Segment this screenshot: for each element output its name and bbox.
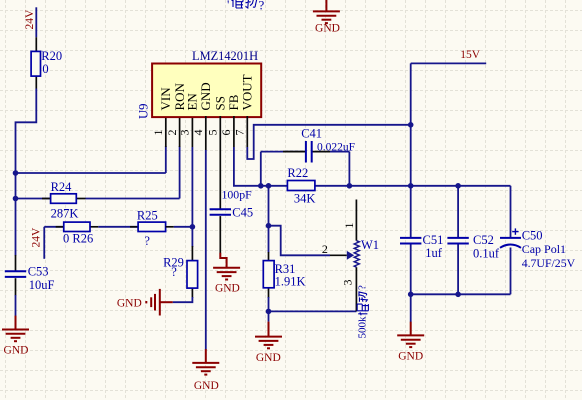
wire R25 to pin3 [166,226,174,228]
svg-text:5: 5 [206,130,220,136]
ground GND (bottom center) [205,349,207,363]
value CJK (W1 rotated 滑动?) [357,304,368,315]
svg-text:GND: GND [4,345,29,357]
svg-text:VIN: VIN [158,87,173,111]
capacitor C45 [210,208,231,210]
svg-text:VOUT: VOUT [240,74,255,110]
capacitor C51 [400,237,421,239]
svg-text:0: 0 [42,62,48,76]
pin stub 6 [233,116,235,147]
svg-text:GND: GND [198,82,213,110]
svg-text:R20: R20 [41,49,62,63]
wire wiper to W1 [269,226,331,256]
svg-text:GND: GND [256,352,281,364]
resistor R26 [64,222,90,231]
pin stub 2 [179,116,181,147]
svg-text:GND: GND [117,297,142,309]
resistor R20 [31,51,40,76]
svg-text:LMZ14201H: LMZ14201H [192,49,258,63]
node junction left rail / pin1 wire [13,170,19,176]
svg-text:4: 4 [191,130,205,136]
capacitor C53 [5,270,26,272]
wire R20 to left rail [16,89,37,256]
resistor R29 pins [191,246,193,261]
svg-text:500k: 500k [356,316,368,339]
node junction pin3/R25 [190,224,196,230]
ground GND (below R31) [268,311,270,321]
resistor R20 pins [35,37,37,51]
svg-text:R24: R24 [51,180,73,194]
svg-text:0.1uf: 0.1uf [473,247,500,261]
svg-text:C51: C51 [423,233,444,247]
wire GND below C51 [410,294,412,322]
C45 lower lead [219,216,221,253]
bottom rail caps [411,293,511,295]
svg-text:?: ? [144,234,150,248]
power port 24V (at R26) [43,227,45,259]
capacitor C41 branch [260,152,262,186]
svg-text:100pF: 100pF [222,187,253,201]
wire FB rail [234,147,288,186]
svg-text:34K: 34K [294,191,316,205]
resistor R25 [138,222,166,231]
power port GND (top) [325,0,327,11]
resistor R31 pins [268,252,270,261]
svg-text:C41: C41 [301,127,322,141]
resistor R31 [263,261,274,288]
wire R29 to GND port [173,297,193,302]
node junction R31/wiper [266,223,272,229]
node junction C51 top [408,183,414,189]
svg-text:15V: 15V [460,49,481,61]
svg-text:1uf: 1uf [425,246,443,260]
capacitor C50 (polarized) [500,237,521,239]
svg-text:24V: 24V [31,227,43,248]
svg-text:3: 3 [341,280,355,286]
node junction C51 bottom [408,292,414,298]
ground GND (below C53) [15,316,17,330]
capacitor C53 pins [15,255,17,271]
svg-text:10uF: 10uF [29,278,55,292]
node junction C52 bottom [455,292,461,298]
ground GND (below caps) [410,322,412,336]
W1 wiper arrow [347,251,354,260]
node junction R31 bottom [266,309,272,315]
svg-text:': ' [227,0,229,12]
svg-text:6: 6 [219,130,233,136]
svg-text:C53: C53 [28,264,49,278]
node junction left rail / R24 [13,196,19,202]
wire pin4 GND net [205,150,207,350]
wire pin3 down [191,147,193,227]
svg-text:4.7UF/25V: 4.7UF/25V [522,256,576,270]
svg-text:0.022uF: 0.022uF [317,142,355,154]
svg-text:1.91K: 1.91K [275,275,306,289]
pin stub 5 / C45 lead [219,116,221,210]
svg-text:287K: 287K [51,206,79,220]
resistor R24 pins [16,198,51,200]
svg-text:C52: C52 [473,233,494,247]
svg-text:W1: W1 [361,238,379,252]
svg-text:1: 1 [342,223,356,229]
capacitor C52 branch [457,186,459,238]
potentiometer W1 zigzag [354,241,359,268]
wire R26-R25 [98,226,138,228]
svg-text:2: 2 [322,242,328,256]
svg-text:?: ? [356,285,368,290]
svg-text:R25: R25 [137,208,158,222]
svg-text:C45: C45 [232,206,253,220]
ground GND (below C45) [220,253,226,268]
wire C53 to GND [15,295,17,316]
svg-text:C50: C50 [522,229,543,243]
resistor R29 [187,261,198,289]
node junction R31 top [266,183,272,189]
node junction C41 left [258,183,264,189]
svg-text:?: ? [171,265,177,279]
power 15V rail [410,63,412,185]
wire R24 to pin2 [86,198,180,200]
svg-text:U9: U9 [137,103,151,119]
power port 24V (top-left) [35,7,37,37]
svg-text:Cap Pol1: Cap Pol1 [522,242,566,256]
node junction VOUT/15V [408,122,414,128]
svg-text:GND: GND [215,283,240,295]
top rail corner down [510,186,512,238]
pin stub 1 [165,116,167,147]
svg-text:?: ? [259,0,265,13]
power port GND (sideways, at R29) [160,301,173,303]
capacitor C52 [447,237,468,239]
pin stub 7 [246,116,248,147]
svg-text:24V: 24V [24,9,36,30]
pin stub 4 [205,116,207,150]
svg-text:R22: R22 [287,166,308,180]
resistor R22 [287,181,315,191]
capacitor C51 branch [410,186,412,238]
plus sign C50 [512,231,518,233]
svg-text:GND: GND [194,380,219,392]
resistor R26 pins [44,226,64,228]
svg-text:GND: GND [315,23,340,35]
svg-text:0 R26: 0 R26 [63,232,93,246]
resistor R24 [51,194,77,204]
potentiometer W1 pins [355,200,357,241]
svg-text:3: 3 [178,130,192,136]
op-amp U9 LMZ14201H [152,64,261,118]
capacitor C41 [305,141,307,163]
svg-text:GND: GND [398,351,423,363]
wire R31 branch [268,186,270,253]
wire R31 bottom [268,297,270,311]
wire pin1 net [16,172,166,174]
node junction C41 right / R22 [347,183,353,189]
wire VOUT [247,125,410,159]
svg-text:1: 1 [151,130,165,136]
wire bottom rail to W1 [269,310,357,312]
pin stub 3 [191,116,193,147]
node junction C52 top [455,183,461,189]
